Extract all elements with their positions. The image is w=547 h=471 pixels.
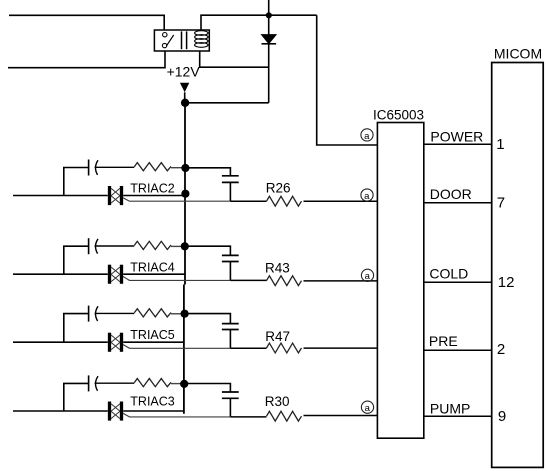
svg-text:a: a — [365, 403, 371, 414]
wire IC to MICOM PUMP — [424, 415, 492, 417]
wire diode cathode down to +12V feed — [268, 44, 270, 103]
wire row1 bus to gate cap — [185, 168, 230, 176]
capacitor row4 gate — [222, 392, 239, 398]
wire row4 MT1 left — [13, 410, 108, 412]
svg-text:TRIAC4: TRIAC4 — [130, 261, 175, 275]
svg-text:DOOR: DOOR — [430, 186, 472, 202]
svg-text:R47: R47 — [265, 329, 290, 344]
node circled-a DOOR — [361, 189, 373, 202]
triac TRIAC2 — [110, 186, 122, 205]
wire row3 resistor to bus — [171, 313, 185, 315]
wire top vertical into diode — [268, 0, 270, 35]
capacitor row4 snubber plate — [88, 375, 90, 391]
relay coil L1 — [195, 31, 208, 48]
wire IC to MICOM PRE — [424, 349, 492, 351]
wire row3 MT2 to bus — [123, 341, 184, 343]
capacitor row2 snubber plate — [88, 238, 90, 254]
capacitor row4 snubber curved plate — [95, 376, 98, 391]
relay contact — [162, 33, 173, 48]
wire row2 gate cap bottom — [229, 262, 231, 281]
node row1 upper dot — [181, 164, 189, 172]
svg-text:7: 7 — [497, 195, 505, 212]
wire row3 MT1 left — [13, 341, 108, 343]
node circled-a COLD — [361, 269, 373, 282]
wire row4 bus to gate cap — [184, 384, 230, 393]
IC U1 IC65003 box — [377, 123, 423, 439]
wire row1 snubber riser — [64, 168, 89, 196]
wire row2 snubber riser — [64, 246, 89, 274]
wire coil top to node B — [201, 15, 317, 30]
wire row4 gate cap bottom — [229, 399, 231, 417]
capacitor row1 snubber curved plate — [95, 160, 98, 175]
svg-text:COLD: COLD — [429, 265, 468, 281]
capacitor row2 snubber curved plate — [95, 239, 98, 254]
wire row2 MT1 left — [13, 273, 108, 275]
svg-text:TRIAC2: TRIAC2 — [130, 181, 175, 195]
wire row3 snubber riser — [64, 314, 89, 343]
wire row3 gate lead — [123, 345, 230, 349]
svg-text:R26: R26 — [266, 181, 291, 196]
capacitor row1 gate — [222, 176, 239, 183]
svg-text:2: 2 — [497, 341, 505, 358]
svg-text:9: 9 — [498, 408, 506, 425]
svg-text:a: a — [365, 271, 371, 282]
resistor row2 snubber — [134, 241, 171, 249]
wire IC to MICOM COLD — [424, 281, 492, 283]
svg-text:a: a — [364, 131, 370, 142]
triac TRIAC4 — [110, 265, 122, 284]
wire R43 to IC input — [304, 280, 378, 282]
svg-text:a: a — [364, 191, 370, 202]
resistor R26 — [267, 196, 302, 206]
svg-text:R30: R30 — [265, 394, 290, 409]
node row3 upper dot — [181, 310, 189, 318]
wire row4 gate lead — [123, 413, 230, 417]
svg-text:1: 1 — [496, 136, 504, 153]
diode D1 — [262, 35, 277, 44]
node row1 lower dot — [181, 190, 189, 198]
wire row4 resistor to bus — [171, 383, 184, 385]
wire row4 gate to R30 — [230, 416, 266, 418]
svg-text:PRE: PRE — [429, 333, 458, 349]
wire bottom-left to relay contact bottom — [8, 51, 165, 68]
+12V supply arrow — [180, 83, 189, 93]
wire row2 resistor to bus — [171, 245, 185, 247]
wire R30 to IC input — [304, 415, 378, 417]
wire row2 gate lead — [123, 277, 230, 281]
wire IC to MICOM DOOR — [424, 202, 492, 204]
MICOM box — [492, 63, 544, 468]
wire R47 to IC input — [304, 347, 378, 349]
resistor R47 — [267, 343, 302, 353]
svg-text:IC65003: IC65003 — [373, 108, 424, 123]
svg-text:R43: R43 — [265, 261, 290, 276]
svg-text:TRIAC3: TRIAC3 — [130, 394, 175, 408]
node row2 upper dot — [181, 242, 189, 250]
wire relay coil bottom to diode branch — [200, 51, 269, 67]
capacitor row3 snubber plate — [88, 306, 90, 322]
wire row3 bus to gate cap — [185, 314, 231, 324]
node circled-a PUMP — [361, 401, 373, 414]
wire row2 cap to resistor — [95, 245, 135, 247]
capacitor row1 snubber plate — [88, 160, 90, 176]
wire row4 cap to resistor — [95, 382, 135, 384]
wire row2 gate to R43 — [230, 279, 266, 281]
wire top-left to relay contact — [9, 15, 164, 30]
node circled-a POWER — [361, 129, 373, 142]
wire row2 MT2 to bus — [123, 273, 185, 275]
wire row1 gate to R26 — [230, 200, 266, 202]
triac TRIAC3 — [110, 402, 122, 421]
wire R26 to IC input — [304, 200, 378, 202]
wire row4 MT2 to bus end — [123, 410, 184, 412]
resistor R30 — [267, 411, 302, 421]
wire row1 gate cap bottom — [229, 183, 231, 201]
relay divider bars — [182, 31, 187, 49]
svg-text:TRIAC5: TRIAC5 — [130, 328, 175, 342]
node row4 upper dot — [180, 380, 188, 388]
svg-text:MICOM: MICOM — [494, 45, 542, 61]
wire +12V to diode vertical — [185, 102, 269, 104]
resistor row3 snubber — [134, 309, 171, 317]
capacitor row3 snubber curved plate — [95, 306, 98, 321]
wire row1 resistor to bus — [171, 167, 185, 169]
svg-text:12: 12 — [498, 274, 515, 291]
+12V bus vertical — [184, 103, 185, 414]
wire node B down to POWER input — [317, 15, 378, 145]
wire row1 gate lead — [123, 198, 230, 201]
svg-text:+12V: +12V — [167, 63, 201, 79]
resistor R43 — [267, 276, 302, 286]
wire IC to MICOM POWER — [424, 143, 492, 145]
resistor row1 snubber — [134, 163, 171, 171]
wire row4 snubber riser — [64, 383, 89, 411]
wire row2 bus to gate cap — [185, 246, 231, 255]
capacitor row2 gate — [222, 255, 239, 261]
resistor row4 snubber — [134, 379, 171, 387]
wire row3 cap to resistor — [95, 312, 135, 314]
relay K1 box — [154, 30, 209, 51]
wire row1 MT2 to bus dot — [123, 195, 185, 197]
node junction circle — [267, 13, 271, 17]
wire row1 cap to resistor — [95, 166, 135, 168]
wire row3 gate cap bottom — [229, 330, 231, 348]
triac TRIAC5 — [110, 333, 122, 352]
svg-text:POWER: POWER — [430, 128, 483, 144]
svg-text:PUMP: PUMP — [430, 400, 470, 416]
capacitor row3 gate — [222, 324, 239, 330]
wire row1 MT1 left — [13, 195, 108, 197]
wire row3 gate to R47 — [230, 347, 266, 349]
node +12V junction dot — [181, 99, 189, 107]
